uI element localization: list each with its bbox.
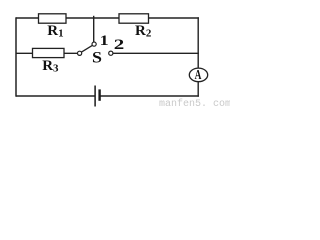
switch contact 1 terminal [92, 42, 96, 46]
wire top [16, 17, 199, 19]
svg-text:S: S [92, 48, 102, 66]
resistor R1 [39, 14, 67, 23]
wire contact 2 to right [113, 52, 199, 54]
resistor R2 [119, 14, 149, 23]
wire left [15, 17, 17, 96]
battery short plate [98, 89, 100, 100]
svg-text:A: A [195, 66, 202, 82]
switch contact 2 terminal [109, 51, 113, 55]
svg-text:R1: R1 [47, 23, 63, 40]
resistor R3 [33, 48, 65, 57]
wire bottom left (to battery) [16, 95, 95, 97]
switch pivot terminal [78, 51, 82, 55]
wire R3 branch [16, 52, 78, 54]
svg-text:R2: R2 [135, 23, 152, 40]
wire right upper (to ammeter) [197, 17, 199, 68]
watermark [159, 99, 231, 110]
svg-text:2: 2 [114, 36, 125, 52]
svg-text:1: 1 [100, 32, 109, 49]
battery long plate [94, 86, 96, 107]
wire junction drop to contact 1 [93, 16, 95, 42]
svg-text:R3: R3 [42, 58, 59, 75]
ammeter A1 body [189, 68, 207, 82]
wire right lower (ammeter to bottom) [197, 81, 199, 96]
switch S lever [81, 45, 92, 52]
wire bottom right (from battery) [100, 95, 199, 97]
